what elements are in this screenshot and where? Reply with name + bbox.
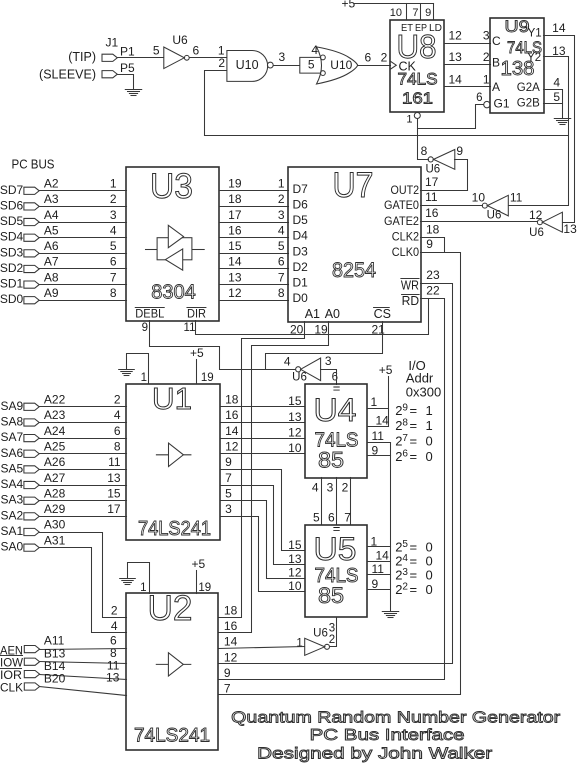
connector SD4	[24, 234, 39, 241]
svg-text:16: 16	[425, 206, 439, 220]
decoder U9 74LS138	[490, 18, 544, 113]
svg-text:B: B	[492, 56, 500, 70]
svg-text:13: 13	[563, 222, 577, 236]
wire U7.GATE0 pin11 to U6.10	[421, 205, 483, 207]
svg-text:8: 8	[114, 439, 121, 453]
svg-text:A7: A7	[44, 255, 59, 269]
svg-text:SA3: SA3	[1, 493, 24, 507]
svg-text:9: 9	[142, 322, 148, 334]
wire U1.12 to U4 input	[221, 453, 305, 455]
connector SA5	[24, 466, 39, 473]
connector CLK	[24, 683, 39, 690]
svg-text:18: 18	[426, 223, 440, 237]
svg-text:A2: A2	[44, 177, 59, 191]
svg-text:14: 14	[552, 21, 566, 35]
svg-text:GATE0: GATE0	[384, 198, 419, 212]
svg-text:161: 161	[402, 91, 433, 108]
svg-text:CLK2: CLK2	[392, 230, 420, 244]
ground at U2 pin1	[120, 579, 136, 585]
svg-text:13: 13	[106, 671, 120, 685]
svg-text:10: 10	[288, 441, 302, 455]
wire U6.8 output to U8.1 net	[418, 129, 429, 160]
wire U4.2 to U5.7	[350, 478, 352, 525]
svg-text:G2A: G2A	[517, 82, 540, 94]
svg-text:16: 16	[225, 408, 239, 422]
svg-text:13: 13	[288, 552, 302, 566]
wire SA3/A28 to U1.15	[40, 500, 127, 502]
svg-text:1: 1	[483, 72, 490, 86]
svg-text:9: 9	[456, 144, 463, 158]
svg-text:DIR: DIR	[187, 307, 206, 321]
svg-text:+5: +5	[192, 557, 206, 571]
connector SD0	[24, 297, 39, 304]
svg-text:11: 11	[425, 190, 438, 204]
comparator U5 74LS85	[305, 525, 367, 617]
wire U6.2 to U5.3	[330, 618, 337, 647]
svg-text:A31: A31	[44, 533, 66, 547]
connector SA1	[24, 528, 39, 535]
wire U3.18 to U7.2 (D6)	[220, 206, 289, 208]
wire U3.16 to U7.4 (D4)	[220, 237, 289, 239]
svg-text:Addr: Addr	[406, 371, 434, 386]
svg-text:6: 6	[110, 255, 117, 269]
svg-text:A8: A8	[44, 270, 59, 284]
svg-text:14: 14	[228, 255, 242, 269]
svg-text:74LS: 74LS	[398, 70, 438, 89]
svg-text:D5: D5	[293, 213, 309, 227]
svg-text:2: 2	[218, 56, 225, 70]
wire U1.5 to U5.12	[221, 501, 305, 579]
svg-text:22: 22	[426, 284, 440, 298]
svg-text:A24: A24	[44, 424, 66, 438]
wire U3.DEBL pin9 to select net	[150, 321, 296, 370]
wire U9.Y1 to U6.13 input	[544, 36, 575, 223]
wire SA4/A27 to U1.13	[40, 485, 127, 487]
wire U7.GATE2 pin16 to U6.12	[421, 221, 538, 223]
wire U7.A0 pin19 to U2.16	[219, 322, 329, 633]
svg-text:9: 9	[225, 455, 232, 469]
svg-text:3: 3	[278, 208, 285, 222]
wire U1.9 to U5.15	[221, 470, 305, 551]
svg-text:SA4: SA4	[1, 477, 24, 491]
svg-text:5: 5	[153, 44, 160, 58]
wire U10.6 to U8 CK pin2	[358, 65, 391, 67]
connector IOR	[24, 671, 39, 678]
svg-text:74LS241: 74LS241	[134, 726, 210, 747]
svg-text:2: 2	[381, 51, 388, 65]
svg-text:CLK: CLK	[0, 680, 23, 694]
inverter U6 pins 13,12 GATE2	[542, 212, 562, 232]
svg-text:A27: A27	[44, 471, 66, 485]
svg-text:+5: +5	[379, 363, 393, 377]
svg-text:15: 15	[107, 486, 121, 500]
svg-text:A23: A23	[44, 408, 66, 422]
svg-text:Y1: Y1	[528, 28, 542, 40]
svg-text:3: 3	[279, 50, 286, 64]
svg-text:4: 4	[111, 619, 118, 633]
svg-text:26=0: 26=0	[395, 449, 433, 465]
svg-text:25=0: 25=0	[395, 539, 433, 555]
svg-text:5: 5	[278, 239, 285, 253]
wire +5 rail to U8 top pins	[355, 3, 434, 5]
svg-text:A1: A1	[305, 307, 320, 321]
svg-text:(TIP): (TIP)	[68, 50, 96, 64]
svg-text:SD2: SD2	[0, 261, 24, 275]
svg-text:WR: WR	[401, 279, 419, 293]
wire U1.14 to U4 input	[221, 438, 305, 440]
svg-text:13: 13	[228, 270, 242, 284]
svg-text:A30: A30	[44, 518, 66, 532]
inverter U6 pins 3,4	[301, 358, 321, 381]
svg-text:Quantum Random Number Gener: Quantum Random Number Generator	[231, 710, 561, 727]
wire CLK/B20 to U2.13	[40, 687, 127, 696]
svg-text:12: 12	[288, 566, 302, 580]
svg-text:17: 17	[228, 208, 242, 222]
svg-text:SD5: SD5	[0, 214, 24, 228]
wire IOW/B13 to U2.8	[40, 662, 127, 664]
svg-text:6: 6	[365, 51, 372, 65]
svg-text:2: 2	[111, 603, 118, 617]
wire feedback U10.2 to Y2 net	[205, 135, 569, 137]
svg-text:3: 3	[110, 208, 117, 222]
svg-text:16: 16	[224, 619, 238, 633]
svg-text:U2: U2	[148, 589, 193, 628]
svg-text:SA1: SA1	[1, 524, 24, 538]
wire U8 pin7 stub	[420, 4, 422, 20]
svg-text:19: 19	[201, 372, 214, 384]
inverter U6 pins 9,8	[434, 150, 455, 170]
wire U4.6 (A=B) to U6.3 input	[321, 370, 337, 385]
svg-text:D7: D7	[293, 182, 309, 196]
svg-text:A6: A6	[44, 239, 59, 253]
wire U4.9 to ground net	[368, 455, 391, 457]
wire P5 to ground	[118, 75, 134, 90]
svg-text:J1: J1	[106, 36, 119, 50]
wire U2.1 to ground	[128, 563, 150, 594]
svg-text:8254: 8254	[332, 259, 376, 282]
wire U8 pin9 stub	[433, 4, 435, 20]
wire U1.16 to U4 input	[221, 422, 305, 424]
connector SD6	[24, 203, 39, 210]
wire U6.6 to U10.1	[190, 57, 227, 59]
svg-text:A: A	[492, 80, 500, 94]
wire U4.14 to +5	[368, 426, 389, 428]
wire SD2/A7 to U3.6	[40, 268, 127, 270]
wire U8 pin10 stub	[406, 4, 408, 20]
svg-text:3: 3	[225, 502, 232, 516]
svg-text:24=0: 24=0	[395, 553, 433, 569]
svg-text:4: 4	[114, 408, 121, 422]
wire SD5/A4 to U3.3	[40, 222, 127, 224]
svg-text:A9: A9	[44, 286, 59, 300]
svg-text:SD3: SD3	[0, 245, 24, 259]
wire U3.19 to U7.1 (D7)	[220, 190, 289, 192]
ground at U9 G2A/G2B	[554, 119, 570, 125]
U2 buffer symbol	[156, 653, 191, 676]
svg-text:B20: B20	[44, 671, 66, 685]
svg-text:15: 15	[228, 239, 242, 253]
connector AEN	[24, 646, 39, 653]
inverter U6 pins 1,2	[305, 638, 325, 655]
connector SA0	[24, 544, 39, 551]
svg-text:U6: U6	[172, 33, 188, 47]
svg-text:13: 13	[449, 50, 463, 64]
svg-text:U4: U4	[314, 392, 357, 428]
svg-text:4: 4	[311, 43, 318, 57]
svg-text:+5: +5	[190, 346, 204, 360]
wire U8.14 to U9.1 (A)	[445, 86, 491, 88]
connector SA7	[24, 435, 39, 442]
wire U7.RD pin22 to U2.9	[219, 299, 445, 680]
ground at U5	[382, 612, 398, 618]
svg-text:2: 2	[114, 393, 121, 407]
svg-text:U10: U10	[330, 58, 352, 72]
U9 G1 input bubble	[484, 101, 490, 107]
svg-text:Designed by John Walker: Designed by John Walker	[257, 746, 493, 763]
connector IOW	[24, 658, 39, 665]
svg-text:11: 11	[184, 322, 196, 334]
svg-text:6: 6	[476, 92, 482, 104]
wire U5 right pin to ground riser y=561.0	[368, 561, 391, 563]
svg-text:PC BUS: PC BUS	[12, 158, 55, 172]
svg-text:U10: U10	[236, 58, 259, 72]
buffer U2 74LS241	[126, 593, 218, 750]
svg-text:SA2: SA2	[1, 508, 24, 522]
svg-text:SA7: SA7	[1, 430, 24, 444]
svg-text:9: 9	[426, 237, 433, 251]
svg-text:A4: A4	[44, 208, 59, 222]
wire IOR/B14 to U2.11	[40, 675, 127, 680]
wire SD7/A2 to U3.1	[40, 190, 127, 192]
svg-text:3: 3	[483, 29, 490, 43]
connector SD2	[24, 265, 39, 272]
wire +5 riser U4	[388, 377, 390, 427]
svg-text:5: 5	[225, 486, 232, 500]
svg-text:14: 14	[224, 635, 238, 649]
svg-text:RD: RD	[402, 294, 420, 308]
svg-text:12: 12	[288, 426, 302, 440]
svg-text:SD0: SD0	[0, 292, 24, 306]
svg-text:SD1: SD1	[0, 277, 24, 291]
svg-text:9: 9	[224, 666, 231, 680]
inverter U6 pins 11,10 GATE0	[487, 195, 508, 216]
wire SD3/A6 to U3.5	[40, 253, 127, 255]
svg-text:D6: D6	[293, 197, 309, 211]
svg-text:1: 1	[141, 372, 147, 384]
svg-text:U1: U1	[152, 381, 192, 416]
wire U8.12 to U9.3 (C)	[445, 43, 491, 45]
svg-text:9: 9	[425, 7, 431, 19]
svg-text:19: 19	[198, 582, 211, 594]
svg-text:11: 11	[510, 191, 523, 205]
counter U8 74LS161	[390, 20, 444, 112]
svg-text:3: 3	[325, 354, 332, 368]
svg-text:7: 7	[278, 270, 285, 284]
connector SA6	[24, 450, 39, 457]
svg-text:1: 1	[296, 637, 302, 649]
wire AEN/A11 to U2.6	[40, 649, 127, 650]
svg-text:1: 1	[140, 582, 146, 594]
svg-text:GATE2: GATE2	[384, 214, 419, 228]
connector SA3	[24, 497, 39, 504]
wire U3.14 to U7.6 (D2)	[220, 268, 289, 270]
wire U8.1 to U9.G1	[418, 105, 484, 129]
svg-text:G2B: G2B	[517, 98, 540, 110]
svg-text:12: 12	[529, 208, 543, 222]
svg-text:29=1: 29=1	[395, 403, 433, 419]
svg-text:U6: U6	[313, 628, 328, 640]
ground at U1 pin1	[119, 370, 135, 376]
svg-text:2: 2	[278, 192, 285, 206]
svg-text:14: 14	[449, 73, 463, 87]
svg-text:17: 17	[107, 502, 121, 516]
svg-text:6: 6	[278, 255, 285, 269]
wire P1 to U6 input pin5	[118, 57, 164, 59]
svg-text:7: 7	[110, 270, 117, 284]
wire U5 right pin to ground riser y=589.6	[368, 589, 391, 591]
wire U10.3 to U10 gate2 inputs	[274, 65, 300, 67]
wire +5 to U1.19	[196, 360, 198, 384]
svg-text:8: 8	[110, 286, 117, 300]
wire U4/U5 ground riser	[390, 443, 392, 612]
svg-text:G1: G1	[494, 96, 510, 110]
wire U5 right pin to ground riser y=546.9	[368, 546, 391, 548]
nand U10 pins 1,2,3	[227, 51, 268, 82]
wire U6.9 input from U7.OUT2	[421, 160, 468, 191]
wire SA6/A25 to U1.8	[40, 453, 127, 455]
svg-text:23=0: 23=0	[395, 567, 433, 583]
connector SD3	[24, 250, 39, 257]
svg-text:D0: D0	[293, 291, 309, 305]
svg-text:3: 3	[327, 481, 334, 495]
wire SD0/A9 to U3.8	[40, 300, 127, 302]
wire U3.12 to U7.8 (D0)	[220, 300, 289, 302]
svg-text:10: 10	[390, 7, 402, 19]
svg-text:4: 4	[312, 481, 319, 495]
svg-text:28=1: 28=1	[395, 418, 433, 434]
svg-text:CS: CS	[374, 307, 391, 321]
svg-text:U3: U3	[150, 167, 193, 206]
wire U7.CLK2 pin18 to CLK net	[421, 238, 445, 253]
buffer U3 8304	[126, 167, 219, 321]
wire U4.4 to U5.5	[321, 478, 323, 525]
wire U1.18 to U4 input	[221, 406, 305, 408]
svg-text:2: 2	[483, 50, 490, 64]
svg-text:6: 6	[114, 424, 121, 438]
svg-text:1: 1	[110, 177, 117, 191]
svg-text:12: 12	[225, 439, 239, 453]
svg-text:EP: EP	[415, 22, 427, 34]
svg-text:LD: LD	[429, 22, 442, 34]
svg-text:U5: U5	[314, 531, 357, 567]
connector SD5	[24, 218, 39, 225]
wire U7.WR pin23 to U2.12	[219, 284, 453, 664]
ground at P5	[125, 90, 141, 96]
wire RD branch to U3.DIR pin11	[196, 299, 429, 335]
connector SA4	[24, 481, 39, 488]
wire SA8/A23 to U1.4	[40, 422, 127, 424]
wire U3.15 to U7.5 (D3)	[220, 253, 289, 255]
svg-text:13: 13	[288, 410, 302, 424]
svg-text:A29: A29	[44, 502, 66, 516]
svg-text:U6: U6	[529, 227, 544, 239]
wire U1.1 to ground	[127, 354, 149, 384]
svg-text:ET: ET	[401, 22, 414, 34]
svg-text:0x300: 0x300	[406, 384, 441, 399]
inverter U6 pins 5,6	[164, 47, 185, 69]
timer U7 8254	[288, 167, 421, 322]
wire U9.G2A down	[544, 90, 563, 104]
svg-text:8: 8	[278, 286, 285, 300]
wire SD4/A5 to U3.4	[40, 237, 127, 239]
clock wedge U8 CK	[391, 61, 397, 69]
svg-text:D1: D1	[293, 276, 309, 290]
svg-text:D2: D2	[293, 260, 309, 274]
svg-text:2: 2	[329, 634, 335, 646]
svg-text:A25: A25	[44, 439, 66, 453]
svg-text:U6: U6	[292, 371, 307, 383]
connector SA2	[24, 513, 39, 520]
svg-text:14: 14	[225, 424, 239, 438]
wire U7.CLK0 pin9 to U2.7	[219, 253, 461, 695]
svg-text:1: 1	[406, 114, 412, 126]
svg-text:SD7: SD7	[0, 183, 24, 197]
svg-text:4: 4	[553, 75, 560, 89]
svg-text:4: 4	[110, 223, 117, 237]
svg-text:SA0: SA0	[1, 540, 24, 554]
svg-text:C: C	[492, 34, 501, 48]
svg-text:8: 8	[421, 144, 428, 158]
svg-text:PC Bus Interface: PC Bus Interface	[310, 727, 465, 744]
svg-text:15: 15	[288, 394, 302, 408]
wire U2.14 to U6.1	[219, 647, 305, 649]
svg-text:27=0: 27=0	[395, 433, 433, 449]
wire input split for U10 pins 4,5	[300, 57, 321, 73]
svg-text:5: 5	[308, 58, 315, 72]
svg-text:A3: A3	[44, 192, 59, 206]
svg-text:A28: A28	[44, 486, 66, 500]
svg-text:U7: U7	[333, 166, 374, 205]
svg-text:15: 15	[288, 538, 302, 552]
svg-text:4: 4	[278, 223, 285, 237]
svg-text:P1: P1	[120, 45, 135, 59]
svg-text:SA5: SA5	[1, 461, 24, 475]
svg-text:(SLEEVE): (SLEEVE)	[39, 68, 96, 82]
svg-text:Y2: Y2	[527, 52, 541, 64]
connector P1	[102, 54, 117, 61]
svg-text:12: 12	[228, 286, 242, 300]
wire A30 to U2.2	[40, 533, 127, 618]
svg-text:13: 13	[107, 471, 121, 485]
wire U4.1 to +5	[368, 408, 389, 410]
wire U7.CS pin21 to select net	[266, 322, 383, 370]
svg-text:11: 11	[108, 455, 121, 469]
svg-text:SA6: SA6	[1, 446, 24, 460]
wire U1.3 to U5.10	[221, 517, 305, 592]
svg-text:8304: 8304	[151, 281, 196, 303]
svg-text:22=0: 22=0	[395, 582, 433, 598]
svg-text:A5: A5	[44, 223, 59, 237]
svg-text:DEBL: DEBL	[135, 307, 164, 321]
svg-text:85: 85	[318, 448, 344, 473]
wire SA7/A24 to U1.6	[40, 438, 127, 440]
svg-text:A22: A22	[44, 393, 66, 407]
buffer U1 74LS241	[126, 384, 220, 540]
wire U3.17 to U7.3 (D5)	[220, 222, 289, 224]
svg-text:CLK0: CLK0	[392, 245, 420, 259]
svg-text:SD6: SD6	[0, 198, 24, 212]
wire U7.OUT2 pin17	[421, 190, 468, 192]
